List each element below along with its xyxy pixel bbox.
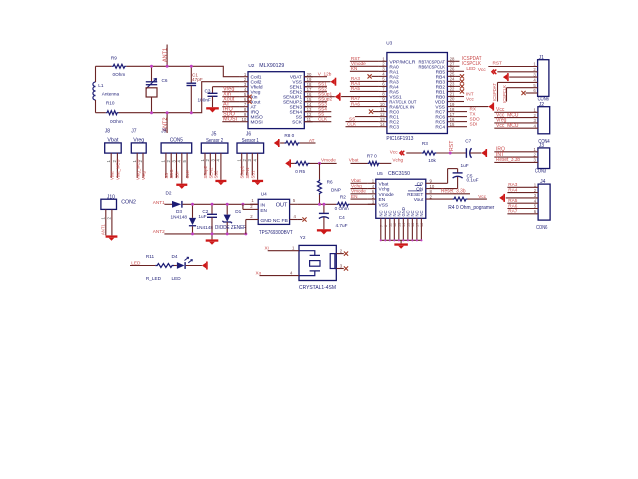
svg-text:Vmode: Vmode bbox=[379, 192, 395, 198]
label TPS76930DBVT bbox=[259, 230, 293, 236]
svg-text:1uF: 1uF bbox=[461, 163, 469, 168]
svg-text:Vbat: Vbat bbox=[379, 181, 390, 187]
svg-text:J1: J1 bbox=[539, 55, 545, 61]
svg-text:Sensor 1: Sensor 1 bbox=[242, 138, 259, 144]
svg-text:R7 0: R7 0 bbox=[367, 154, 377, 159]
node SSup2 bbox=[304, 97, 332, 102]
svg-text:Vcc: Vcc bbox=[466, 96, 474, 101]
svg-text:GND NC FB: GND NC FB bbox=[260, 218, 288, 224]
wire bbox=[119, 82, 240, 113]
svg-text:MOSI: MOSI bbox=[223, 117, 238, 123]
svg-text:R4 0 Ohm_pogramer: R4 0 Ohm_pogramer bbox=[448, 205, 494, 211]
node SS (U3 RC2) bbox=[346, 116, 379, 121]
svg-text:ANT1: ANT1 bbox=[153, 200, 165, 205]
svg-text:17: 17 bbox=[415, 223, 419, 227]
connector J9 CON5 bbox=[161, 128, 192, 183]
svg-text:CRYSTAL1-4SM: CRYSTAL1-4SM bbox=[299, 285, 336, 291]
svg-text:SDI: SDI bbox=[175, 172, 180, 179]
connector J8 Vbat bbox=[105, 128, 122, 180]
ground flag (R5) bbox=[285, 159, 291, 167]
svg-text:10: 10 bbox=[242, 117, 247, 122]
capacitor C7 1uF bbox=[465, 138, 481, 158]
svg-text:CON2: CON2 bbox=[121, 200, 136, 206]
capacitor C4 4.7uF bbox=[319, 204, 348, 229]
wire U4 EN tie bbox=[243, 204, 258, 209]
IC U5 CBC3150 bbox=[368, 171, 435, 240]
svg-text:0.1uF: 0.1uF bbox=[467, 178, 479, 183]
node ICSPCLK bbox=[455, 61, 481, 67]
svg-text:SSup1: SSup1 bbox=[240, 165, 245, 178]
node AT bbox=[309, 138, 315, 143]
svg-text:R11: R11 bbox=[146, 254, 155, 259]
svg-text:U4: U4 bbox=[261, 191, 267, 196]
svg-text:CON6: CON6 bbox=[536, 225, 547, 231]
node TX bbox=[455, 111, 476, 116]
svg-text:0Ohm: 0Ohm bbox=[113, 72, 126, 77]
ground flag (R8) bbox=[274, 139, 280, 147]
junction dots power rail bbox=[191, 203, 247, 236]
resistor R6 DNP bbox=[318, 163, 341, 204]
resistor R4 0 Ohm_pogramer bbox=[426, 197, 495, 211]
wire U5 ON bbox=[426, 188, 458, 190]
svg-text:J3: J3 bbox=[539, 143, 545, 149]
node SDI bbox=[455, 122, 477, 127]
svg-text:Vreg: Vreg bbox=[133, 138, 144, 144]
node Xin bbox=[223, 92, 231, 98]
svg-text:RA4: RA4 bbox=[508, 187, 518, 192]
node RST (J1) bbox=[488, 61, 537, 67]
IC U2 MLX90129 bbox=[240, 63, 313, 129]
node Vcc / power arrow bbox=[390, 149, 405, 155]
ground (C2/ANT2) bbox=[206, 234, 219, 245]
svg-text:LED: LED bbox=[172, 276, 182, 281]
wire bbox=[183, 203, 259, 205]
capacitor C5 0.1uF bbox=[453, 163, 479, 189]
label CON3 (J3) bbox=[535, 169, 546, 175]
svg-text:11: 11 bbox=[388, 223, 392, 227]
wire bbox=[95, 66, 97, 82]
svg-text:V_12b: V_12b bbox=[318, 72, 332, 77]
svg-text:CLK: CLK bbox=[318, 117, 328, 122]
wire U5 CP bbox=[426, 169, 458, 184]
wire bbox=[222, 121, 240, 123]
svg-text:47pF: 47pF bbox=[192, 77, 203, 82]
ground flag (LED) bbox=[186, 262, 208, 270]
node SS bbox=[304, 112, 331, 117]
svg-text:J6: J6 bbox=[246, 132, 252, 138]
svg-text:RST: RST bbox=[449, 140, 455, 151]
label CON6 (J4) bbox=[536, 225, 547, 231]
diode D3 1N4148 (vertical) bbox=[189, 204, 213, 234]
svg-text:RESET: RESET bbox=[407, 192, 423, 198]
ground flag (U2 VSS) bbox=[304, 78, 336, 86]
svg-text:4.7uF: 4.7uF bbox=[336, 223, 348, 228]
node RST (vertical label) bbox=[449, 140, 455, 151]
resistor R3 10k bbox=[406, 141, 466, 163]
svg-text:LED: LED bbox=[131, 260, 141, 265]
svg-text:SEN1: SEN1 bbox=[245, 167, 250, 179]
svg-text:0 R5: 0 R5 bbox=[295, 169, 305, 174]
svg-text:L1: L1 bbox=[98, 83, 104, 88]
svg-text:RA6: RA6 bbox=[351, 101, 361, 106]
svg-text:Vreg: Vreg bbox=[141, 171, 146, 180]
label CON6 (J1) bbox=[538, 96, 549, 102]
svg-text:CLK: CLK bbox=[347, 122, 357, 127]
node CLK bbox=[304, 117, 331, 122]
diode D2 bbox=[166, 190, 188, 219]
ground flag (SENUP1 to U3 VSS1) bbox=[304, 92, 387, 101]
svg-text:Vbat_MCU: Vbat_MCU bbox=[116, 160, 121, 180]
svg-text:CON5: CON5 bbox=[170, 138, 183, 144]
node ANT2 label bbox=[153, 229, 165, 234]
svg-text:R6: R6 bbox=[327, 179, 333, 184]
node Vmode (U5) bbox=[351, 189, 368, 194]
node RA3 bbox=[350, 76, 379, 81]
svg-text:Reset_3.3b: Reset_3.3b bbox=[496, 157, 520, 163]
wire bbox=[222, 91, 240, 93]
svg-text:J2: J2 bbox=[539, 102, 545, 108]
svg-text:ON: ON bbox=[416, 187, 424, 193]
svg-text:MOSI: MOSI bbox=[251, 120, 263, 126]
node ICSPDAT (J1 pin4) bbox=[492, 82, 537, 101]
connector J10 CON2 bbox=[101, 194, 136, 235]
node Vcc (R4) bbox=[478, 194, 486, 199]
svg-text:CP: CP bbox=[417, 181, 424, 187]
wire bbox=[96, 112, 106, 114]
svg-text:R10: R10 bbox=[106, 101, 115, 106]
svg-text:Vmode: Vmode bbox=[321, 158, 336, 163]
wire bbox=[222, 106, 240, 108]
svg-text:Antenna: Antenna bbox=[102, 92, 120, 97]
node RA7 bbox=[350, 96, 379, 101]
resistor R2 0 Ohm bbox=[335, 194, 376, 211]
svg-text:16: 16 bbox=[411, 223, 415, 227]
svg-text:ICSPCLK: ICSPCLK bbox=[502, 85, 507, 103]
connector J3 CON3 bbox=[494, 143, 549, 168]
node MOSI bbox=[223, 117, 238, 123]
crystal Y2 CRYSTAL1-4SM bbox=[299, 235, 336, 281]
svg-text:CLK: CLK bbox=[185, 170, 190, 178]
svg-text:CBC3150: CBC3150 bbox=[388, 171, 410, 177]
node AT bbox=[223, 102, 230, 108]
svg-text:Reset_3.3b: Reset_3.3b bbox=[441, 189, 466, 195]
label PIC16F1913 bbox=[386, 136, 413, 142]
node Vmode bbox=[350, 61, 379, 66]
node Xo (crystal pin4) bbox=[256, 270, 300, 275]
svg-text:RC4: RC4 bbox=[435, 125, 445, 131]
svg-text:U3: U3 bbox=[386, 41, 392, 46]
wire bbox=[164, 203, 172, 205]
resistor R5 bbox=[291, 161, 337, 173]
svg-text:15: 15 bbox=[406, 223, 410, 227]
svg-text:0Ohm: 0Ohm bbox=[110, 119, 123, 124]
connector J5 Sensor 2 bbox=[200, 132, 228, 180]
svg-text:C4: C4 bbox=[339, 215, 345, 220]
svg-text:C7: C7 bbox=[465, 138, 471, 143]
node SDO bbox=[223, 112, 236, 118]
svg-text:EN: EN bbox=[379, 197, 386, 203]
svg-text:Y2: Y2 bbox=[300, 235, 306, 240]
wire bbox=[95, 100, 97, 113]
svg-text:SDO: SDO bbox=[169, 169, 174, 179]
svg-text:100nF: 100nF bbox=[198, 98, 211, 103]
node Vchg (U5) bbox=[351, 183, 368, 188]
svg-text:SDI: SDI bbox=[470, 122, 478, 127]
no-connect X U3 pin11 bbox=[369, 110, 379, 114]
svg-text:C6: C6 bbox=[162, 78, 168, 83]
svg-text:1uF: 1uF bbox=[198, 214, 206, 219]
wire bbox=[164, 233, 245, 235]
node Vbat (U5) bbox=[351, 178, 368, 183]
svg-text:RA5: RA5 bbox=[351, 86, 361, 91]
no-connect X U2 Xin/Xout bbox=[248, 95, 252, 104]
svg-text:Vcc_MCU: Vcc_MCU bbox=[496, 123, 519, 129]
svg-text:D2: D2 bbox=[166, 190, 172, 195]
svg-text:OUT: OUT bbox=[276, 203, 288, 209]
junction dots antenna bbox=[150, 65, 193, 114]
node Xout bbox=[223, 97, 235, 103]
wire U4 GND to ANT2 rail bbox=[246, 220, 258, 234]
node RA6 bbox=[350, 101, 379, 106]
svg-text:1N4148: 1N4148 bbox=[197, 225, 214, 230]
no-connect X (J1 pin6) bbox=[521, 91, 537, 95]
svg-text:12: 12 bbox=[393, 223, 397, 227]
svg-text:Xi: Xi bbox=[265, 245, 269, 250]
no-connect X U4 FB bbox=[298, 217, 307, 221]
connector J1 CON6 bbox=[533, 55, 548, 97]
svg-text:VSS: VSS bbox=[379, 202, 389, 208]
no-connect X U3 RB4-RB1 bbox=[455, 74, 464, 93]
node INT bbox=[455, 91, 473, 96]
svg-text:CON3: CON3 bbox=[535, 169, 546, 175]
svg-text:ANT2: ANT2 bbox=[153, 229, 165, 234]
node Xi (crystal pin1) bbox=[265, 245, 300, 250]
wire bbox=[126, 66, 240, 76]
svg-text:J7: J7 bbox=[131, 128, 137, 134]
node RST bbox=[350, 56, 379, 61]
svg-text:D1: D1 bbox=[235, 209, 241, 214]
svg-text:7: 7 bbox=[379, 225, 383, 227]
wire bbox=[222, 111, 240, 113]
svg-text:RC3: RC3 bbox=[389, 125, 399, 131]
junction bbox=[449, 152, 452, 155]
svg-text:EN: EN bbox=[351, 194, 358, 199]
svg-text:R_LED: R_LED bbox=[146, 276, 162, 281]
svg-text:SSup1: SSup1 bbox=[318, 92, 332, 97]
wire bbox=[96, 65, 112, 67]
svg-text:NC: NC bbox=[419, 210, 424, 216]
svg-text:Vreg_MCU: Vreg_MCU bbox=[135, 159, 140, 180]
svg-text:Sensor 2: Sensor 2 bbox=[206, 138, 223, 144]
svg-text:RA6: RA6 bbox=[508, 203, 518, 208]
wire U4 OUT bbox=[298, 203, 337, 205]
svg-text:DNP: DNP bbox=[331, 188, 341, 193]
svg-text:SSup2: SSup2 bbox=[203, 165, 208, 178]
node Vreg bbox=[223, 87, 234, 93]
ground flag (C7) bbox=[481, 149, 487, 157]
svg-text:1N4148: 1N4148 bbox=[171, 215, 188, 220]
node ANT1 bbox=[162, 45, 168, 67]
capacitor C3 100nF bbox=[198, 87, 240, 108]
svg-text:TPS76930DBVT: TPS76930DBVT bbox=[259, 230, 293, 236]
resistor R7 bbox=[349, 154, 392, 166]
resistor R8 bbox=[280, 133, 315, 145]
svg-text:14: 14 bbox=[380, 122, 385, 127]
svg-text:Vcc: Vcc bbox=[478, 67, 486, 72]
svg-text:R9: R9 bbox=[111, 55, 117, 60]
ground (J9) bbox=[176, 184, 187, 189]
svg-text:C3: C3 bbox=[205, 89, 211, 94]
no-connect X crystal pin3 bbox=[336, 264, 348, 271]
svg-text:Vmode: Vmode bbox=[351, 189, 366, 194]
label CON4 (J2) bbox=[538, 139, 549, 145]
svg-text:MLX90129: MLX90129 bbox=[259, 63, 284, 69]
svg-text:R8 0: R8 0 bbox=[284, 133, 294, 138]
ground (J10) bbox=[106, 235, 118, 240]
node EN (U5) bbox=[351, 194, 368, 199]
svg-text:Vbat: Vbat bbox=[351, 178, 361, 183]
IC U4 TPS76930DBVT bbox=[250, 191, 297, 224]
zener diode D1 bbox=[215, 204, 247, 234]
svg-text:ICSPDAT: ICSPDAT bbox=[492, 83, 497, 101]
svg-text:18: 18 bbox=[420, 223, 424, 227]
svg-text:8: 8 bbox=[384, 225, 388, 227]
node ANT1 label bbox=[153, 200, 165, 205]
ground flag (J4 pin3) bbox=[499, 194, 538, 202]
node SS3 bbox=[304, 102, 327, 107]
ground flag (U3 VSS) bbox=[455, 103, 494, 111]
svg-text:Xo: Xo bbox=[256, 270, 262, 275]
junction dots OUT rail bbox=[318, 203, 325, 206]
power arrow Vcc (J1) bbox=[478, 67, 538, 74]
svg-text:IN: IN bbox=[260, 203, 265, 208]
ground (J5) bbox=[215, 180, 226, 185]
node LED bbox=[131, 260, 141, 265]
svg-text:Vbat: Vbat bbox=[349, 158, 359, 163]
ground flag (J1 pin3) bbox=[503, 73, 538, 81]
svg-text:RA7: RA7 bbox=[508, 209, 518, 214]
svg-text:15: 15 bbox=[450, 122, 455, 127]
node Vchg bbox=[392, 158, 403, 163]
node IRQ bbox=[223, 107, 234, 113]
svg-text:J4: J4 bbox=[540, 179, 546, 185]
LED D4 bbox=[172, 254, 193, 281]
wire U5 NC bus bbox=[380, 239, 423, 241]
node LED bbox=[455, 66, 476, 71]
svg-text:SS2: SS2 bbox=[214, 170, 219, 179]
IC U3 PIC16F1913 bbox=[379, 41, 456, 134]
ground (J6) bbox=[252, 180, 263, 185]
resistor R10 bbox=[106, 101, 123, 125]
node KN bbox=[350, 66, 379, 71]
node ICSPDAT bbox=[455, 56, 481, 62]
svg-text:SS: SS bbox=[164, 173, 169, 179]
svg-text:D3: D3 bbox=[176, 209, 182, 214]
svg-text:SCK: SCK bbox=[292, 120, 303, 126]
svg-text:R3: R3 bbox=[422, 141, 428, 146]
node CLK (U3 RC3) bbox=[346, 122, 379, 127]
svg-text:0 Ohm: 0 Ohm bbox=[335, 206, 349, 211]
svg-text:U2: U2 bbox=[248, 63, 254, 68]
capacitor C2 1uF bbox=[198, 204, 217, 234]
wire U3 pin12 bbox=[355, 116, 379, 118]
node SS4 bbox=[304, 107, 331, 112]
no-connect X U3 pin4 bbox=[368, 74, 379, 78]
svg-text:Vout: Vout bbox=[414, 197, 424, 203]
connector J2 CON4 bbox=[494, 102, 549, 134]
svg-text:Vbat: Vbat bbox=[107, 138, 119, 144]
svg-text:Vcc: Vcc bbox=[478, 194, 486, 199]
resistor R11 R_LED bbox=[130, 254, 177, 281]
wire bbox=[222, 96, 240, 98]
svg-text:J9: J9 bbox=[161, 128, 167, 134]
node RA5 bbox=[350, 86, 379, 91]
node ANT2 bbox=[162, 113, 168, 133]
svg-text:Vchg: Vchg bbox=[351, 183, 362, 188]
node ICSPCLK (J1 pin5) bbox=[502, 85, 538, 103]
label CRYSTAL1-4SM bbox=[299, 285, 336, 291]
svg-text:J5: J5 bbox=[211, 132, 217, 138]
svg-text:J8: J8 bbox=[105, 128, 111, 134]
svg-text:13: 13 bbox=[397, 223, 401, 227]
svg-text:SEN2: SEN2 bbox=[208, 167, 213, 179]
ground (C4) bbox=[317, 229, 331, 234]
svg-text:10k: 10k bbox=[428, 158, 436, 163]
inductor L1 (Antenna) bbox=[93, 82, 120, 100]
svg-text:D4: D4 bbox=[172, 254, 178, 259]
svg-text:U5: U5 bbox=[377, 171, 383, 176]
svg-text:RA3: RA3 bbox=[508, 182, 518, 187]
ground (U5) bbox=[394, 240, 408, 248]
capacitor C1 47pF bbox=[187, 66, 203, 112]
svg-text:14: 14 bbox=[402, 223, 406, 227]
svg-text:R2: R2 bbox=[340, 194, 346, 199]
node RX bbox=[455, 106, 476, 111]
node Reset_3.3b (U5 RESET) bbox=[426, 189, 470, 195]
junction bbox=[318, 162, 321, 165]
trimmer capacitor C6 bbox=[146, 66, 168, 112]
node RA4 bbox=[350, 81, 379, 86]
svg-text:LED: LED bbox=[466, 66, 476, 71]
svg-text:Vchg: Vchg bbox=[392, 158, 403, 163]
svg-text:KN: KN bbox=[351, 66, 358, 71]
node SS2 bbox=[304, 87, 327, 92]
connector J4 CON6 bbox=[507, 179, 550, 220]
ground (C3) bbox=[206, 107, 219, 112]
connector J6 Sensor 1 bbox=[237, 132, 264, 180]
node SS1 bbox=[304, 82, 327, 87]
svg-text:DIODE ZENER: DIODE ZENER bbox=[215, 225, 247, 231]
svg-text:PIC16F1913: PIC16F1913 bbox=[386, 136, 413, 142]
svg-text:ANT1: ANT1 bbox=[162, 48, 168, 62]
svg-text:RA5: RA5 bbox=[508, 198, 518, 203]
svg-text:Vchg: Vchg bbox=[379, 187, 390, 193]
resistor R9 bbox=[111, 55, 126, 77]
svg-text:Vbat: Vbat bbox=[109, 171, 114, 180]
node V_12b bbox=[304, 72, 331, 77]
svg-text:ANT1: ANT1 bbox=[101, 224, 106, 235]
svg-text:Vcc: Vcc bbox=[390, 149, 398, 154]
node Vmode bbox=[321, 158, 336, 163]
connector J7 Vreg bbox=[131, 128, 146, 180]
no-connect X crystal pin2 bbox=[336, 249, 348, 256]
svg-text:AT: AT bbox=[309, 138, 315, 143]
node Vcc (U3 VDD) bbox=[455, 96, 474, 101]
wire bbox=[222, 101, 240, 103]
node SDO bbox=[455, 116, 480, 121]
svg-text:SS1: SS1 bbox=[250, 170, 255, 179]
svg-text:J10: J10 bbox=[107, 194, 115, 200]
